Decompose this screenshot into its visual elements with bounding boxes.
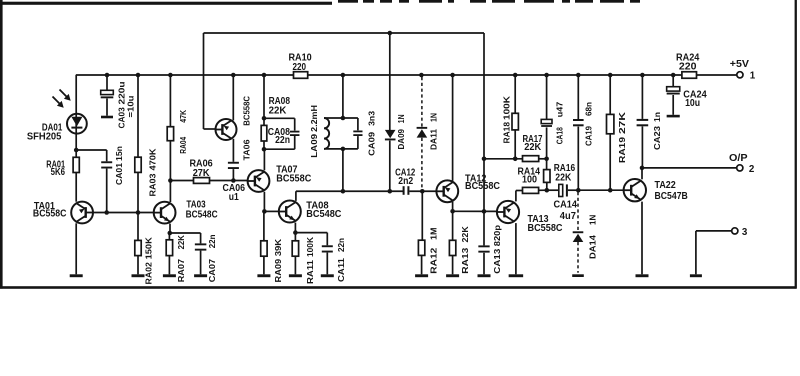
svg-text:4u7: 4u7: [560, 211, 577, 222]
svg-text:820p: 820p: [492, 225, 502, 246]
svg-text:2.2mH: 2.2mH: [309, 105, 319, 132]
svg-text:CA19: CA19: [583, 126, 593, 146]
svg-text:RA04: RA04: [178, 137, 188, 154]
svg-text:22n: 22n: [336, 238, 346, 252]
svg-text:3n3: 3n3: [366, 111, 376, 126]
svg-text:u47: u47: [554, 102, 564, 118]
svg-text:CA14: CA14: [554, 200, 578, 211]
svg-text:47K: 47K: [178, 109, 188, 123]
svg-text:+5V: +5V: [730, 59, 750, 70]
svg-text:RA11: RA11: [305, 260, 315, 284]
svg-text:LA09: LA09: [309, 134, 319, 158]
svg-text:5K6: 5K6: [51, 167, 66, 178]
svg-text:27K: 27K: [193, 168, 210, 179]
svg-text:TA22: TA22: [655, 180, 677, 191]
svg-text:220: 220: [679, 61, 697, 72]
svg-text:BC547B: BC547B: [655, 191, 688, 202]
svg-text:220: 220: [293, 62, 307, 73]
svg-text:RA19: RA19: [617, 137, 627, 163]
svg-text:22K: 22K: [269, 105, 287, 116]
svg-text:u1: u1: [229, 192, 239, 203]
svg-text:RA03: RA03: [148, 173, 158, 196]
svg-text:1N: 1N: [429, 113, 439, 122]
svg-text:27K: 27K: [617, 111, 627, 134]
svg-text:BC548C: BC548C: [186, 210, 218, 221]
svg-text:100K: 100K: [501, 95, 511, 120]
svg-text:DA14: DA14: [588, 235, 598, 259]
svg-text:RA07: RA07: [176, 259, 186, 283]
svg-text:SFH205: SFH205: [27, 132, 62, 143]
svg-text:DA11: DA11: [429, 129, 439, 150]
svg-text:CA01: CA01: [114, 163, 124, 185]
svg-text:CA11: CA11: [336, 258, 346, 282]
svg-text:150K: 150K: [143, 236, 153, 259]
svg-text:22K: 22K: [176, 234, 186, 249]
svg-text:3: 3: [742, 227, 748, 238]
svg-text:2: 2: [749, 164, 755, 175]
svg-text:470K: 470K: [148, 148, 158, 171]
svg-text:10u: 10u: [685, 98, 700, 109]
svg-text:RA13: RA13: [460, 247, 470, 273]
svg-text:1n: 1n: [652, 112, 662, 122]
svg-text:RA12: RA12: [429, 247, 439, 273]
svg-text:BC558C: BC558C: [33, 208, 67, 219]
svg-text:CA23: CA23: [652, 126, 662, 150]
svg-text:RA09: RA09: [273, 259, 283, 283]
svg-text:CA09: CA09: [366, 132, 376, 156]
svg-text:22K: 22K: [555, 172, 571, 183]
svg-text:BC558C: BC558C: [528, 223, 563, 234]
svg-text:1: 1: [750, 70, 756, 81]
svg-text:1N: 1N: [588, 215, 598, 225]
svg-text:O/P: O/P: [729, 153, 748, 164]
svg-text:=10u: =10u: [126, 96, 136, 118]
svg-text:22K: 22K: [524, 142, 541, 153]
svg-text:1N: 1N: [396, 114, 406, 123]
svg-text:22n: 22n: [207, 235, 217, 249]
svg-text:CA07: CA07: [207, 259, 217, 283]
svg-text:68n: 68n: [583, 102, 593, 116]
svg-text:BC558C: BC558C: [465, 181, 500, 192]
svg-text:39K: 39K: [273, 238, 283, 256]
svg-text:DA09: DA09: [396, 129, 406, 150]
svg-text:1M: 1M: [429, 228, 439, 241]
svg-text:2n2: 2n2: [398, 176, 413, 187]
svg-text:BC548C: BC548C: [306, 209, 341, 220]
svg-text:22K: 22K: [460, 225, 470, 242]
svg-text:22n: 22n: [275, 135, 290, 146]
svg-text:CA18: CA18: [554, 127, 564, 144]
svg-text:BC558C: BC558C: [241, 96, 251, 126]
svg-text:CA13: CA13: [492, 248, 502, 273]
svg-text:TA06: TA06: [242, 139, 252, 160]
svg-text:15n: 15n: [114, 146, 124, 161]
svg-text:RA18: RA18: [501, 122, 511, 144]
svg-text:BC558C: BC558C: [276, 173, 311, 184]
svg-text:100K: 100K: [305, 236, 315, 257]
svg-text:RA02: RA02: [143, 262, 153, 285]
svg-text:100: 100: [522, 175, 537, 186]
